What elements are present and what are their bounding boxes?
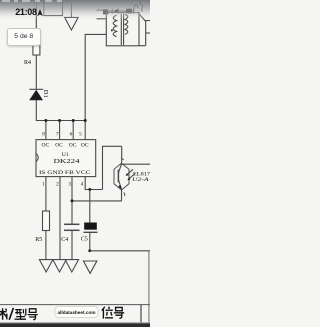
svg-text:D1: D1 [42, 90, 49, 98]
cut-off header remnants [2, 0, 10, 2]
connector box (cut off at top) [44, 0, 63, 16]
transformer polarity dot [111, 29, 113, 31]
ground triangle 1 [39, 260, 53, 272]
wire C4 to ground [71, 231, 73, 260]
pin tick (emitter, pin 3) [124, 193, 125, 196]
title text 位 [102, 307, 113, 319]
wire pin5 drop [84, 121, 86, 140]
title text 号 (first row) [28, 309, 38, 320]
wire D1 to bus [36, 100, 85, 121]
title text 格 (partial, cut) [0, 308, 7, 320]
wire secondary output diagonal [138, 13, 146, 46]
winding curl (cut off, above box) [134, 5, 138, 11]
svg-text:R5: R5 [35, 237, 42, 243]
svg-text:DK224: DK224 [54, 159, 80, 165]
light arrow 2 [127, 174, 134, 181]
svg-text:C4: C4 [61, 237, 68, 243]
wire stub B into transformer [97, 18, 107, 20]
light arrow 1 [126, 169, 133, 176]
watermark pill alldatasheet.com [55, 306, 98, 317]
svg-text:2: 2 [56, 181, 59, 187]
snubber diode (cut off) [112, 8, 118, 13]
node VCC junction [88, 188, 91, 191]
wire from top to R4 [35, 0, 37, 38]
wire collector drop [121, 146, 123, 163]
wire pin8 drop [45, 121, 47, 140]
wire C5 to ground rail [89, 233, 91, 251]
svg-text:U1: U1 [62, 152, 69, 158]
transformer T1 box [106, 13, 139, 46]
svg-text:5: 5 [79, 131, 82, 137]
ground triangle 4 [83, 261, 97, 273]
title text slash [9, 308, 13, 320]
page badge 5 de 8 [7, 28, 41, 46]
svg-text:3: 3 [68, 181, 71, 187]
wire FB rail [72, 200, 122, 202]
ground triangle 2 [53, 260, 67, 272]
ground triangle 3 [65, 260, 79, 272]
title block right border [148, 251, 150, 327]
svg-text:6: 6 [70, 131, 73, 137]
transformer core [121, 14, 123, 46]
IC U1 body [36, 140, 96, 177]
optocoupler U2-A body outline [114, 163, 129, 190]
svg-text:IS GND FB VCC: IS GND FB VCC [39, 170, 91, 176]
title text 号 (second) [114, 307, 124, 318]
winding curl right (cut off) [140, 1, 143, 12]
wire diode to cap [119, 10, 126, 12]
title block column divider [140, 305, 142, 327]
status bar gradient [0, 0, 150, 20]
wire ground rail to right edge [90, 250, 150, 252]
svg-text:OC: OC [81, 143, 89, 149]
wire pin2 down [59, 177, 61, 260]
transistor collector diagonal [118, 164, 121, 173]
diode D1 [29, 89, 43, 100]
wire R4 to D1 [35, 55, 37, 89]
wire pin4 down and right [85, 177, 102, 190]
svg-text:OC: OC [42, 143, 50, 149]
svg-text:8: 8 [42, 131, 45, 137]
wire R5 to ground [45, 231, 47, 260]
node ground rail junction [88, 249, 91, 252]
wire VCC node to C5 [89, 190, 91, 223]
wire VCC riser to collector rail [103, 146, 122, 189]
svg-text:R4: R4 [24, 60, 31, 66]
svg-text:alldatasheet.com: alldatasheet.com [58, 310, 96, 315]
wire collector rail to right edge [122, 163, 150, 165]
svg-text:1: 1 [42, 181, 45, 187]
transformer primary coil [113, 15, 116, 36]
svg-text:7: 7 [56, 131, 59, 137]
IC notch [36, 153, 38, 161]
pin tick (collector, pin 4) [121, 158, 124, 159]
wire output stub 1 [146, 20, 151, 22]
wire pin1 down [45, 177, 47, 211]
node bus dot pin7 [58, 119, 61, 122]
wire stub A (top left of transformer) [97, 9, 104, 11]
resistor R5 [43, 211, 50, 231]
title block top border [0, 304, 150, 306]
fuse (black box, cut) [103, 9, 108, 14]
wire pin3 down [71, 177, 73, 224]
earth arrow triangle [65, 17, 79, 30]
wire emitter down [121, 190, 123, 201]
node bus dot pin6 [72, 119, 75, 122]
bottom dark bar [0, 322, 150, 323]
resistor R4 [33, 37, 40, 55]
svg-text:U2-A: U2-A [132, 177, 149, 183]
node FB junction [71, 199, 74, 202]
svg-text:OC: OC [55, 143, 63, 149]
schematic page background [0, 0, 150, 327]
node bus dot pin5 [84, 119, 87, 122]
wire transformer bottom extension [139, 45, 146, 47]
capacitor C5 (polarized) [84, 223, 98, 233]
wire aux winding: long vertical to transformer [85, 34, 106, 120]
node bus dot pin8 [44, 119, 47, 122]
capacitor C4 [64, 224, 80, 230]
title text 型 [15, 309, 26, 320]
wire output stub 2 [146, 32, 151, 34]
wire pin7 drop [59, 121, 61, 140]
status icon [37, 9, 43, 17]
svg-text:C5: C5 [81, 237, 88, 243]
snubber cap (black, cut) [126, 8, 134, 13]
transformer secondary coil [125, 14, 128, 34]
wire pin6 drop [72, 121, 74, 140]
transistor emitter diagonal with arrow [118, 180, 122, 190]
clock 21:08 [15, 7, 37, 17]
transistor base bar [117, 170, 119, 183]
svg-text:4: 4 [81, 181, 84, 187]
svg-text:OC: OC [69, 143, 77, 149]
wire to snubber diode [108, 10, 112, 12]
earth arrow stem [70, 3, 72, 18]
